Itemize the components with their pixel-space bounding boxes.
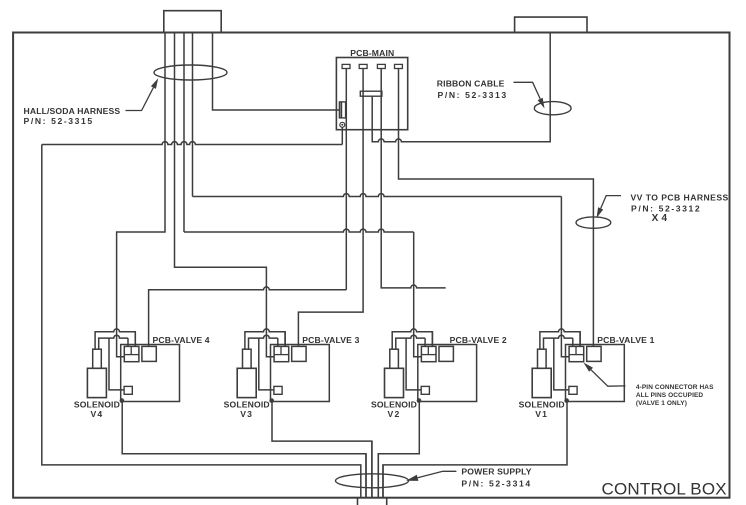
svg-text:(VALVE 1 ONLY): (VALVE 1 ONLY)	[636, 400, 687, 407]
svg-text:SOLENOID: SOLENOID	[74, 399, 120, 409]
svg-text:P/N: 52-3313: P/N: 52-3313	[438, 90, 508, 100]
svg-text:V1: V1	[535, 409, 548, 419]
svg-text:V2: V2	[388, 409, 401, 419]
svg-text:PCB-VALVE 1: PCB-VALVE 1	[597, 335, 654, 345]
svg-text:SOLENOID: SOLENOID	[224, 399, 270, 409]
svg-text:SOLENOID: SOLENOID	[371, 399, 417, 409]
svg-text:CONTROL BOX: CONTROL BOX	[602, 479, 727, 498]
svg-text:P/N: 52-3312: P/N: 52-3312	[631, 203, 701, 213]
svg-text:V4: V4	[90, 409, 103, 419]
svg-text:POWER SUPPLY: POWER SUPPLY	[461, 467, 531, 477]
svg-text:V3: V3	[240, 409, 253, 419]
svg-text:P/N: 52-3314: P/N: 52-3314	[461, 478, 531, 488]
svg-text:VV TO PCB HARNESS: VV TO PCB HARNESS	[631, 192, 729, 202]
svg-text:X4: X4	[652, 213, 671, 224]
svg-text:P/N: 52-3315: P/N: 52-3315	[24, 116, 94, 126]
svg-text:PCB-VALVE 4: PCB-VALVE 4	[153, 335, 210, 345]
svg-text:SOLENOID: SOLENOID	[519, 399, 565, 409]
svg-text:PCB-VALVE 2: PCB-VALVE 2	[450, 335, 507, 345]
svg-text:PCB-MAIN: PCB-MAIN	[350, 48, 394, 58]
svg-text:4-PIN CONNECTOR HAS: 4-PIN CONNECTOR HAS	[636, 384, 714, 391]
svg-text:RIBBON CABLE: RIBBON CABLE	[437, 78, 505, 88]
svg-text:PCB-VALVE 3: PCB-VALVE 3	[302, 335, 359, 345]
svg-text:ALL PINS OCCUPIED: ALL PINS OCCUPIED	[636, 392, 704, 399]
svg-text:HALL/SODA HARNESS: HALL/SODA HARNESS	[24, 106, 121, 116]
